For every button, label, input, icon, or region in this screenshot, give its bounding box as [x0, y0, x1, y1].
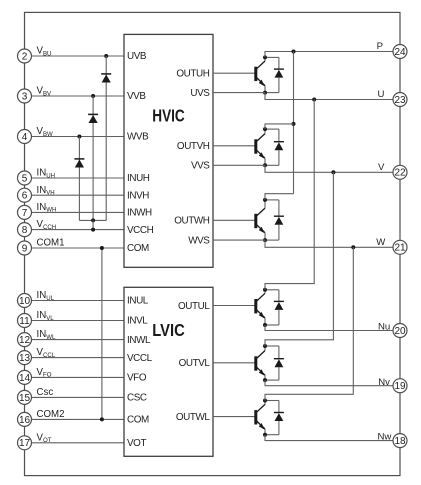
svg-text:INUH: INUH — [127, 173, 150, 184]
svg-text:INWH: INWH — [37, 202, 57, 214]
transistor Q2 body — [254, 129, 265, 165]
node Q3 emitter — [263, 238, 267, 242]
svg-text:HVIC: HVIC — [152, 106, 185, 126]
wire: WVS sense — [213, 239, 265, 241]
svg-text:VVB: VVB — [127, 91, 146, 102]
svg-text:INVH: INVH — [37, 185, 55, 197]
pin 9 terminal — [18, 241, 32, 255]
svg-text:INUL: INUL — [127, 296, 149, 307]
wire: V output line — [265, 165, 393, 172]
pin 23 terminal — [393, 93, 407, 107]
svg-text:VCCL: VCCL — [127, 353, 153, 364]
wire: VVS sense — [213, 164, 265, 166]
pin 7 terminal — [18, 205, 32, 219]
wire pin 13 to IC — [32, 357, 125, 359]
diode across Q1 — [265, 57, 284, 92]
pin 18 terminal — [393, 434, 407, 448]
svg-text:21: 21 — [394, 243, 406, 254]
wire: Nu output line — [265, 325, 393, 331]
svg-text:5: 5 — [22, 173, 28, 184]
pin 21 terminal — [393, 240, 407, 254]
svg-text:WVB: WVB — [127, 132, 149, 143]
wire: U output line — [265, 93, 393, 100]
node Q1 collector — [263, 55, 267, 59]
svg-text:VBU: VBU — [37, 46, 52, 58]
op-amp U2: LVIC block — [124, 287, 213, 456]
node: bootstrap D3 tap on VBW — [77, 135, 81, 139]
svg-text:OUTUH: OUTUH — [176, 68, 209, 79]
wire: V column to Q5 collector — [265, 172, 333, 346]
node: junction on COM2 wire — [100, 417, 104, 421]
pin 14 terminal — [18, 370, 32, 384]
bootstrap diode D3 symbol — [74, 159, 84, 168]
wire pin 14 to IC — [32, 376, 125, 378]
svg-text:2: 2 — [22, 51, 28, 62]
pin 20 terminal — [393, 324, 407, 338]
node Q4 emitter — [263, 323, 267, 327]
node: junction on VCCH wire — [91, 228, 95, 232]
node: V line to V column — [331, 170, 335, 174]
node Q6 emitter — [263, 433, 267, 437]
node: bus junction — [91, 218, 95, 222]
svg-text:20: 20 — [394, 326, 406, 337]
pin 10 terminal — [18, 294, 32, 308]
transistor Q6 body — [254, 401, 265, 435]
wire: UVS sense — [213, 92, 265, 94]
svg-text:INWL: INWL — [127, 335, 151, 346]
svg-text:LVIC: LVIC — [152, 320, 185, 340]
svg-text:INVL: INVL — [127, 316, 148, 327]
svg-text:VCCL: VCCL — [37, 347, 56, 359]
node Q4 collector — [263, 288, 267, 292]
transistor Q5 body — [254, 346, 265, 380]
pin 5 terminal — [18, 171, 32, 185]
svg-text:3: 3 — [22, 91, 28, 102]
wire pin 4 to IC — [32, 136, 125, 138]
svg-text:VBW: VBW — [37, 126, 54, 138]
pin 17 terminal — [18, 436, 32, 450]
wire: P column — [293, 52, 295, 194]
svg-text:Csc: Csc — [37, 387, 54, 398]
svg-text:VOT: VOT — [37, 432, 52, 444]
pin 15 terminal — [18, 390, 32, 404]
diode across Q5 — [265, 346, 284, 380]
node: U line to U column — [312, 98, 316, 102]
svg-text:COM: COM — [127, 415, 149, 426]
svg-text:UVS: UVS — [190, 88, 210, 99]
svg-text:VOT: VOT — [127, 438, 146, 449]
svg-text:8: 8 — [22, 225, 28, 236]
node Q2 emitter — [263, 163, 267, 167]
svg-text:U: U — [378, 89, 385, 100]
wire: P column jog to Q3 collector — [265, 194, 294, 200]
svg-text:W: W — [376, 237, 386, 248]
pin 24 terminal — [393, 45, 407, 59]
node: junction on COM1 wire — [100, 246, 104, 250]
svg-text:24: 24 — [394, 47, 406, 58]
svg-text:INUH: INUH — [37, 168, 56, 180]
pin 13 terminal — [18, 351, 32, 365]
node: W line to W column — [351, 245, 355, 249]
svg-text:14: 14 — [19, 373, 31, 384]
svg-text:VFO: VFO — [37, 367, 52, 379]
svg-text:16: 16 — [19, 415, 31, 426]
wire: W output line — [265, 240, 393, 247]
transistor Q2 gate lead — [213, 145, 255, 147]
svg-text:INWH: INWH — [127, 208, 152, 219]
svg-text:11: 11 — [19, 316, 30, 327]
wire: P column jog to Q2 collector — [265, 124, 294, 129]
svg-text:13: 13 — [19, 353, 31, 364]
pin 4 terminal — [18, 130, 32, 144]
svg-text:12: 12 — [19, 335, 31, 346]
node Q3 collector — [263, 198, 267, 202]
svg-text:Nw: Nw — [378, 432, 392, 443]
svg-text:INVH: INVH — [127, 190, 149, 201]
svg-text:OUTWL: OUTWL — [176, 412, 211, 423]
node: P rail to P column — [292, 50, 296, 54]
svg-text:15: 15 — [19, 393, 31, 404]
pin 12 terminal — [18, 333, 32, 347]
pin 19 terminal — [393, 379, 407, 393]
svg-text:COM: COM — [127, 243, 149, 254]
wire pin 16 to IC — [32, 418, 125, 420]
node: bootstrap D1 tap on VBU — [104, 54, 108, 58]
transistor Q4 gate lead — [213, 305, 255, 307]
svg-text:CSC: CSC — [127, 393, 147, 404]
svg-text:V: V — [378, 162, 385, 173]
node Q5 emitter — [263, 378, 267, 382]
transistor Q3 body — [254, 200, 265, 240]
svg-text:INUL: INUL — [37, 290, 55, 302]
svg-text:VVS: VVS — [191, 161, 210, 172]
svg-text:6: 6 — [22, 191, 28, 202]
wire pin 11 to IC — [32, 320, 125, 322]
wire pin 6 to IC — [32, 194, 125, 196]
node Q1 emitter — [263, 91, 267, 95]
wire: COM1 to COM2 link — [101, 248, 103, 419]
transistor Q4 body — [254, 290, 265, 325]
svg-text:VFO: VFO — [127, 373, 147, 384]
pin 3 terminal — [18, 89, 32, 103]
bootstrap diode D2 symbol — [88, 114, 98, 123]
diode across Q2 — [265, 129, 284, 165]
svg-text:UVB: UVB — [127, 51, 147, 62]
svg-text:VCCH: VCCH — [127, 225, 154, 236]
svg-text:OUTWH: OUTWH — [174, 216, 210, 227]
diode across Q3 — [265, 200, 284, 240]
pin 8 terminal — [18, 223, 32, 237]
svg-text:Nu: Nu — [378, 322, 390, 333]
wire pin 12 to IC — [32, 339, 125, 341]
svg-text:INVL: INVL — [37, 310, 55, 322]
pin 22 terminal — [393, 165, 407, 179]
wire pin 15 to IC — [32, 396, 125, 398]
wire pin 17 to IC — [32, 442, 125, 444]
wire: U column to Q4 collector — [265, 100, 314, 290]
wire pin 2 to IC — [32, 55, 125, 57]
svg-text:OUTUL: OUTUL — [178, 301, 210, 312]
svg-text:23: 23 — [394, 95, 406, 106]
diode across Q6 — [265, 401, 284, 435]
wire pin 9 to IC — [32, 247, 125, 249]
svg-text:P: P — [377, 41, 383, 52]
node Q2 collector — [263, 127, 267, 131]
bootstrap diode D2 wire — [92, 96, 94, 220]
node Q5 collector — [263, 344, 267, 348]
pin 2 terminal — [18, 49, 32, 63]
wire pin 10 to IC — [32, 300, 125, 302]
wire pin 3 to IC — [32, 95, 125, 97]
svg-text:INWL: INWL — [37, 329, 56, 341]
pin 11 terminal — [18, 314, 32, 328]
wire: bootstrap diode bus — [79, 219, 106, 221]
diode across Q4 — [265, 290, 284, 325]
svg-text:19: 19 — [394, 381, 406, 392]
node: P column feeds Q2 — [292, 122, 296, 126]
pin 16 terminal — [18, 412, 32, 426]
wire pin 7 to IC — [32, 211, 125, 213]
transistor Q6 gate lead — [213, 416, 255, 418]
svg-text:VBV: VBV — [37, 86, 53, 98]
wire: Nv output line — [265, 380, 393, 386]
transistor Q5 gate lead — [213, 362, 255, 364]
svg-text:17: 17 — [19, 438, 31, 449]
svg-text:18: 18 — [394, 436, 406, 447]
wire pin 5 to IC — [32, 177, 125, 179]
node Q6 collector — [263, 399, 267, 403]
transistor Q3 gate lead — [213, 219, 255, 221]
transistor Q1 gate lead — [213, 72, 255, 74]
svg-text:22: 22 — [394, 168, 406, 179]
svg-text:WVS: WVS — [188, 235, 210, 246]
svg-text:COM1: COM1 — [37, 238, 65, 249]
bootstrap diode D1 wire — [105, 56, 107, 220]
svg-text:7: 7 — [22, 208, 28, 219]
node: bootstrap D2 tap on VBV — [91, 94, 95, 98]
svg-text:VCCH: VCCH — [37, 219, 57, 231]
bootstrap diode D3 wire — [78, 137, 80, 221]
wire pin 8 to IC — [32, 229, 125, 231]
wire: Nw output line — [265, 435, 393, 441]
wire: W column to Q6 collector — [265, 247, 353, 400]
transistor Q1 body — [254, 57, 265, 92]
svg-text:Nv: Nv — [378, 377, 390, 388]
svg-text:OUTVH: OUTVH — [177, 141, 210, 152]
wire: P rail — [265, 52, 393, 58]
svg-text:COM2: COM2 — [37, 409, 65, 420]
bootstrap diode D1 symbol — [101, 74, 111, 83]
svg-text:10: 10 — [19, 296, 31, 307]
svg-text:9: 9 — [22, 243, 28, 254]
svg-text:4: 4 — [22, 132, 28, 143]
wire: bus to VCCH — [92, 220, 94, 229]
op-amp U1: HVIC block — [124, 34, 213, 267]
pin 6 terminal — [18, 188, 32, 202]
svg-text:OUTVL: OUTVL — [179, 358, 211, 369]
